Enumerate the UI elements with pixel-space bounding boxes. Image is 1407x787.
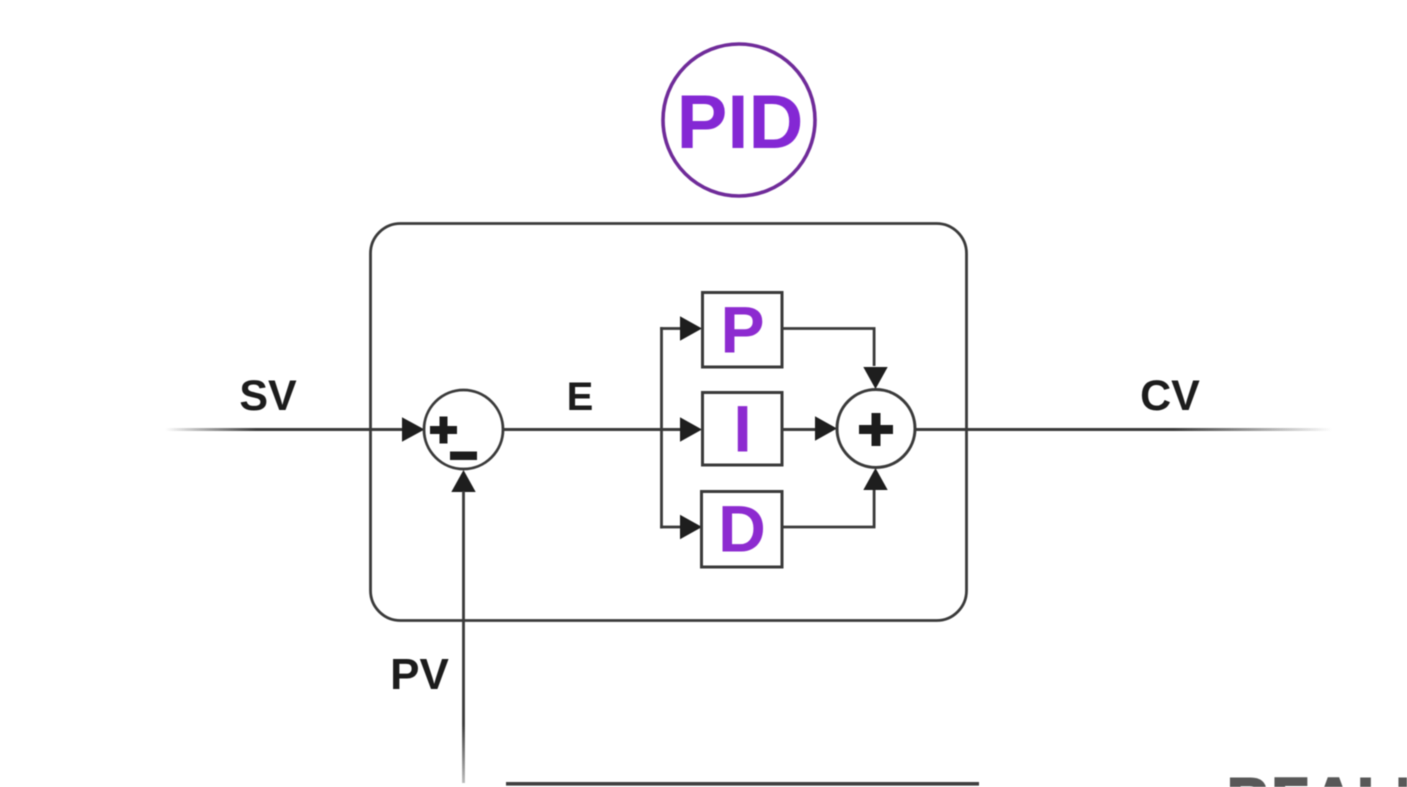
plus sign S1 bbox=[430, 417, 457, 444]
wire I output bbox=[782, 428, 816, 431]
wire E from S1 to branch bbox=[503, 428, 682, 431]
svg-text:PV: PV bbox=[390, 650, 449, 699]
wire PV input bbox=[462, 491, 465, 783]
svg-text:E: E bbox=[567, 375, 594, 419]
arrowhead into I bbox=[680, 417, 702, 441]
arrowhead into P bbox=[680, 316, 702, 340]
wire SV input bbox=[165, 428, 405, 431]
wire P output bbox=[782, 329, 874, 367]
svg-text:I: I bbox=[733, 392, 751, 466]
svg-text:SV: SV bbox=[239, 372, 297, 420]
branch vertical wire bbox=[660, 327, 663, 529]
svg-text:PID: PID bbox=[677, 80, 804, 165]
svg-text:CV: CV bbox=[1140, 372, 1200, 420]
plus sign S2 bbox=[859, 413, 893, 446]
arrowhead into S2 left bbox=[815, 416, 837, 440]
arrowhead into S1 bottom (PV) bbox=[451, 470, 475, 492]
wire D output bbox=[782, 490, 874, 527]
wire to P block bbox=[660, 327, 682, 330]
minus sign S1 bbox=[450, 452, 477, 461]
block D bbox=[702, 492, 783, 568]
block I bbox=[703, 393, 783, 466]
svg-text:REALPARS: REALPARS bbox=[1228, 766, 1407, 787]
summing junction S1 bbox=[424, 390, 503, 469]
wire CV output bbox=[915, 428, 1332, 431]
controller box bbox=[371, 224, 967, 621]
arrowhead into S2 bottom bbox=[863, 468, 887, 490]
summing junction S2 bbox=[837, 390, 915, 468]
bottom rule bbox=[506, 782, 979, 786]
arrowhead into D bbox=[680, 515, 702, 539]
svg-text:P: P bbox=[720, 293, 764, 367]
PID badge circle bbox=[663, 44, 815, 196]
svg-text:D: D bbox=[718, 492, 766, 566]
arrowhead into summing junction S1 bbox=[402, 417, 425, 441]
block P bbox=[703, 293, 783, 368]
arrowhead into S2 top bbox=[863, 367, 887, 389]
wire to D block bbox=[660, 526, 682, 529]
